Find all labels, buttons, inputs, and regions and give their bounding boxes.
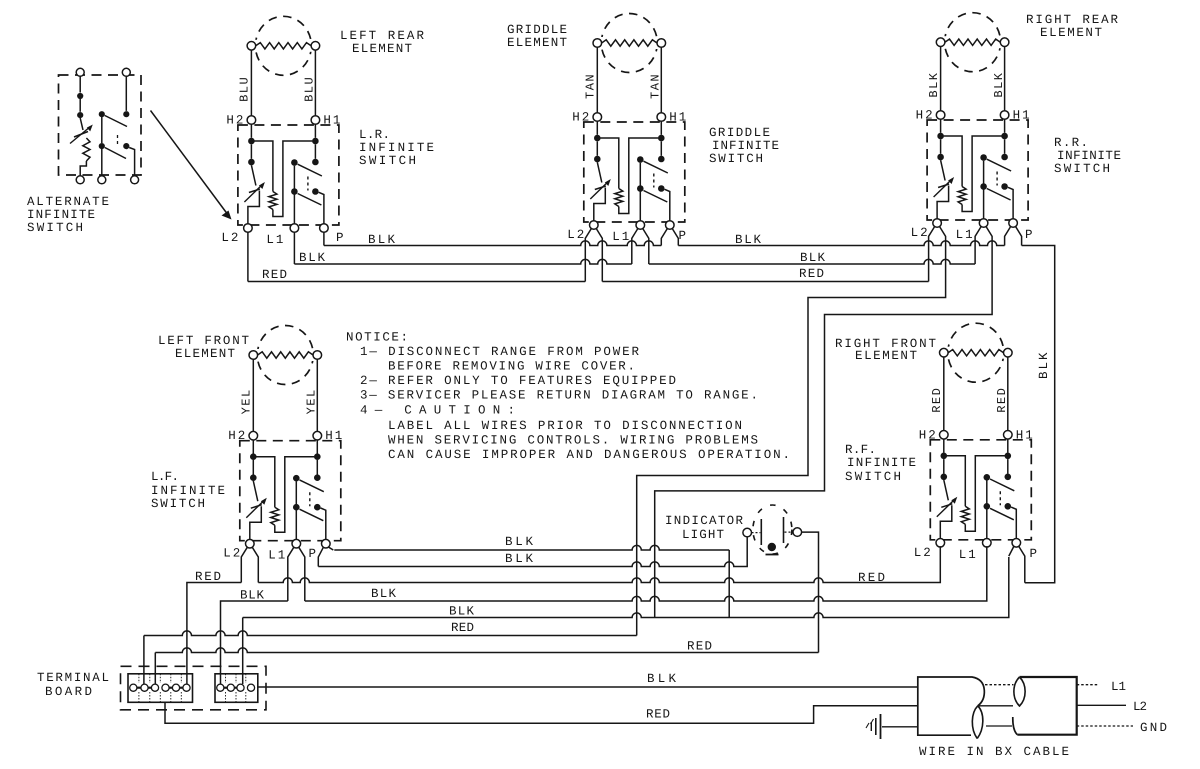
terminal board right block [215,674,258,703]
arrow from alternate switch to L.R. switch L2 [151,111,228,214]
svg-text:3— SERVICER PLEASE RETURN DIAG: 3— SERVICER PLEASE RETURN DIAGRAM TO RAN… [360,389,760,403]
wire GND through cable [986,725,1012,727]
svg-text:INFINITE: INFINITE [27,208,97,222]
svg-text:SWITCH: SWITCH [845,470,903,484]
wire BLK bus griddle P to R.R. P [678,241,1004,246]
L.R. infinite switch [221,114,342,248]
svg-text:BLK: BLK [992,71,1006,97]
svg-text:GRIDDLE: GRIDDLE [507,23,569,37]
svg-text:INFINITE: INFINITE [712,139,781,153]
svg-text:P: P [1030,547,1040,561]
svg-text:RED: RED [995,387,1009,413]
svg-text:CAN CAUSE IMPROPER AND DANGERO: CAN CAUSE IMPROPER AND DANGEROUS OPERATI… [388,448,792,462]
svg-text:RED: RED [451,621,476,635]
wire R.R. L1 fork right leg down-left to BLK lower bus [655,226,992,617]
terminal board left block [128,674,193,703]
svg-text:TAN: TAN [649,73,663,99]
wire RED bus C stub to terminal board [187,583,241,685]
svg-text:ELEMENT: ELEMENT [1040,26,1104,40]
svg-text:L1: L1 [1111,680,1128,694]
svg-text:ALTERNATE: ALTERNATE [27,195,111,209]
svg-text:RED: RED [646,708,672,722]
wire BLK bus L.R. L1 to griddle L1 [294,259,631,264]
wire BLK bus A from L.F. P to junction drop [334,545,729,550]
right rear heating element [936,13,1010,72]
wire R.R. L2 fork right leg down-left to terminal board (RED net) [637,226,946,635]
svg-text:L.F.: L.F. [151,470,181,484]
terminal board dashed outline [121,666,267,710]
svg-text:INFINITE: INFINITE [1057,149,1123,163]
wire BLK bus R.R. P right leg to R.F. P via right-side riser [1022,246,1055,583]
svg-text:P: P [1025,228,1035,242]
svg-text:RED: RED [799,267,826,281]
svg-text:BOARD: BOARD [45,685,94,699]
svg-text:SWITCH: SWITCH [151,497,207,511]
svg-text:BLK: BLK [505,535,535,549]
wire BLK bus griddle L1 to R.R. L1 [649,259,975,264]
svg-text:R.F.: R.F. [845,443,878,457]
svg-text:LIGHT: LIGHT [682,528,726,542]
wire RED bus L.R. L2 to griddle L2 [248,281,585,283]
alternate infinite switch [59,75,142,175]
svg-text:RED: RED [195,570,223,584]
wire right front element H1 lead [1007,357,1009,431]
wire right rear element H2 lead [940,47,942,111]
wire R.R. L1 fork left leg to BLK bus [975,226,981,264]
svg-text:INFINITE: INFINITE [359,141,436,155]
svg-text:R.R.: R.R. [1054,136,1090,150]
svg-text:BLK: BLK [299,251,327,265]
wire left front element H1 lead [316,359,318,431]
wire L1 through cable [985,684,1014,686]
svg-text:YEL: YEL [240,388,254,414]
wire indicator light right lead drop [802,532,819,652]
svg-text:SWITCH: SWITCH [709,152,765,166]
svg-text:SWITCH: SWITCH [1054,162,1112,176]
svg-text:SWITCH: SWITCH [359,154,418,168]
wire L.F. L2 fork left leg to RED bus [241,547,247,583]
wire RED bus griddle L2 to R.R. L2 [602,281,928,283]
svg-text:L2: L2 [1133,700,1149,714]
svg-text:L.R.: L.R. [359,128,392,142]
wire griddle L2 fork legs [585,228,591,281]
wire R.F. P left fork leg [1009,546,1014,556]
svg-text:RED: RED [930,387,944,413]
wire in BX cable (left shell) [918,677,985,735]
wire griddle P fork legs [661,228,667,245]
svg-text:LEFT REAR: LEFT REAR [340,29,426,43]
svg-text:SWITCH: SWITCH [27,221,85,235]
svg-text:WHEN SERVICING CONTROLS. WIRIN: WHEN SERVICING CONTROLS. WIRING PROBLEMS [388,434,760,448]
left rear heating element [246,16,320,75]
svg-text:BEFORE REMOVING WIRE COVER.: BEFORE REMOVING WIRE COVER. [388,360,637,374]
svg-text:BLK: BLK [1037,350,1051,379]
svg-text:BLK: BLK [449,605,476,619]
wire left rear element H2 lead [250,50,252,116]
wire L.F. P fork right leg to BLK bus A [328,547,333,550]
wire left rear element H1 lead [314,50,316,116]
wire RED bus I terminal board to BX cable [165,702,918,723]
wire BLK bus B from L.F. P to indicator light [318,537,747,567]
svg-text:BLK: BLK [368,233,397,247]
svg-text:GND: GND [1140,721,1169,735]
R.F. infinite switch [914,428,1035,562]
wire RED bus F terminal board to R.R. L2 riser [144,631,637,684]
wire griddle element H1 lead [660,47,662,112]
ground [880,714,882,739]
svg-text:BLK: BLK [800,251,827,265]
wire right rear element H1 lead [1004,47,1006,111]
svg-text:LABEL ALL WIRES PRIOR TO DISCO: LABEL ALL WIRES PRIOR TO DISCONNECTION [388,419,744,433]
wire R.R. P fork legs [1005,226,1011,245]
wire BLK bus D from L.F. L1 to R.F. L1 [305,546,987,601]
svg-text:BLK: BLK [735,233,763,247]
svg-text:ELEMENT: ELEMENT [855,349,919,363]
wire BLK bus E from terminal board to R.F. P [243,557,1009,684]
svg-text:TAN: TAN [584,73,598,99]
svg-text:ELEMENT: ELEMENT [175,347,237,361]
svg-text:2— REFER ONLY TO FEATURES EQUI: 2— REFER ONLY TO FEATURES EQUIPPED [360,374,678,388]
wire L.R. L1 drop to BLK bus [293,232,295,264]
svg-text:BLK: BLK [927,71,941,97]
L.F. infinite switch [223,429,344,563]
wire L.R. L2 drop to RED bus [247,232,249,281]
griddle heating element [592,14,666,73]
wire griddle element H2 lead [596,47,598,112]
svg-text:NOTICE:: NOTICE: [346,331,410,345]
wire BLK bus H terminal board to BX cable [258,686,918,688]
wire L.R. P drop to BLK bus [323,232,325,245]
svg-text:P: P [309,547,319,561]
svg-text:LEFT FRONT: LEFT FRONT [158,334,251,348]
svg-text:WIRE IN BX CABLE: WIRE IN BX CABLE [919,745,1071,759]
wire left front element H2 lead [252,359,254,431]
svg-text:P: P [336,231,346,245]
wire in BX cable (right shell) [1017,677,1076,735]
svg-text:ELEMENT: ELEMENT [507,36,569,50]
svg-text:RED: RED [687,640,714,654]
wire R.R. L2 fork left leg to RED bus [929,226,935,281]
svg-text:ELEMENT: ELEMENT [352,42,414,56]
wire BLK bus D stub to terminal board [221,601,288,684]
svg-text:INFINITE: INFINITE [847,456,918,470]
svg-text:BLK: BLK [240,589,266,603]
svg-text:BLK: BLK [371,587,398,601]
wire L.F. P fork left leg to BLK bus B [318,547,323,567]
R.R. infinite switch [911,109,1032,243]
wire right front element H2 lead [943,357,945,431]
indicator light [753,505,792,554]
svg-text:TERMINAL: TERMINAL [37,671,111,685]
svg-text:BLU: BLU [303,76,317,102]
svg-text:BLU: BLU [238,76,252,102]
wire RED bus C from L.F. L2 to R.F. L2 [258,546,940,582]
svg-text:4— CAUTION:: 4— CAUTION: [360,404,517,418]
right front heating element [939,323,1013,382]
svg-text:BLK: BLK [647,672,678,686]
wire L2 through cable [978,705,1013,707]
griddle infinite switch [567,111,688,245]
svg-text:BLK: BLK [505,552,535,566]
svg-text:INFINITE: INFINITE [151,484,227,498]
wire BLK bus L.R. P to griddle P [324,241,661,246]
wire L.F. L1 fork legs to BLK bus [288,547,294,601]
wire griddle L1 fork legs [632,228,638,264]
svg-text:RIGHT REAR: RIGHT REAR [1026,13,1120,27]
left front heating element [248,326,322,385]
wire RED bus G terminal board to indicator light [155,648,818,684]
svg-text:1— DISCONNECT RANGE FROM POWER: 1— DISCONNECT RANGE FROM POWER [360,345,641,359]
wire L.F. L2 fork right leg re-emitting RED bus [252,547,258,583]
svg-text:INDICATOR: INDICATOR [665,514,745,528]
svg-text:GRIDDLE: GRIDDLE [709,126,772,140]
svg-text:RED: RED [858,571,887,585]
wire R.F. P right fork leg [1019,546,1025,583]
svg-text:P: P [679,229,689,243]
svg-text:YEL: YEL [305,388,319,414]
svg-text:RED: RED [262,268,289,282]
wire bus A drop to bus E [728,550,730,618]
